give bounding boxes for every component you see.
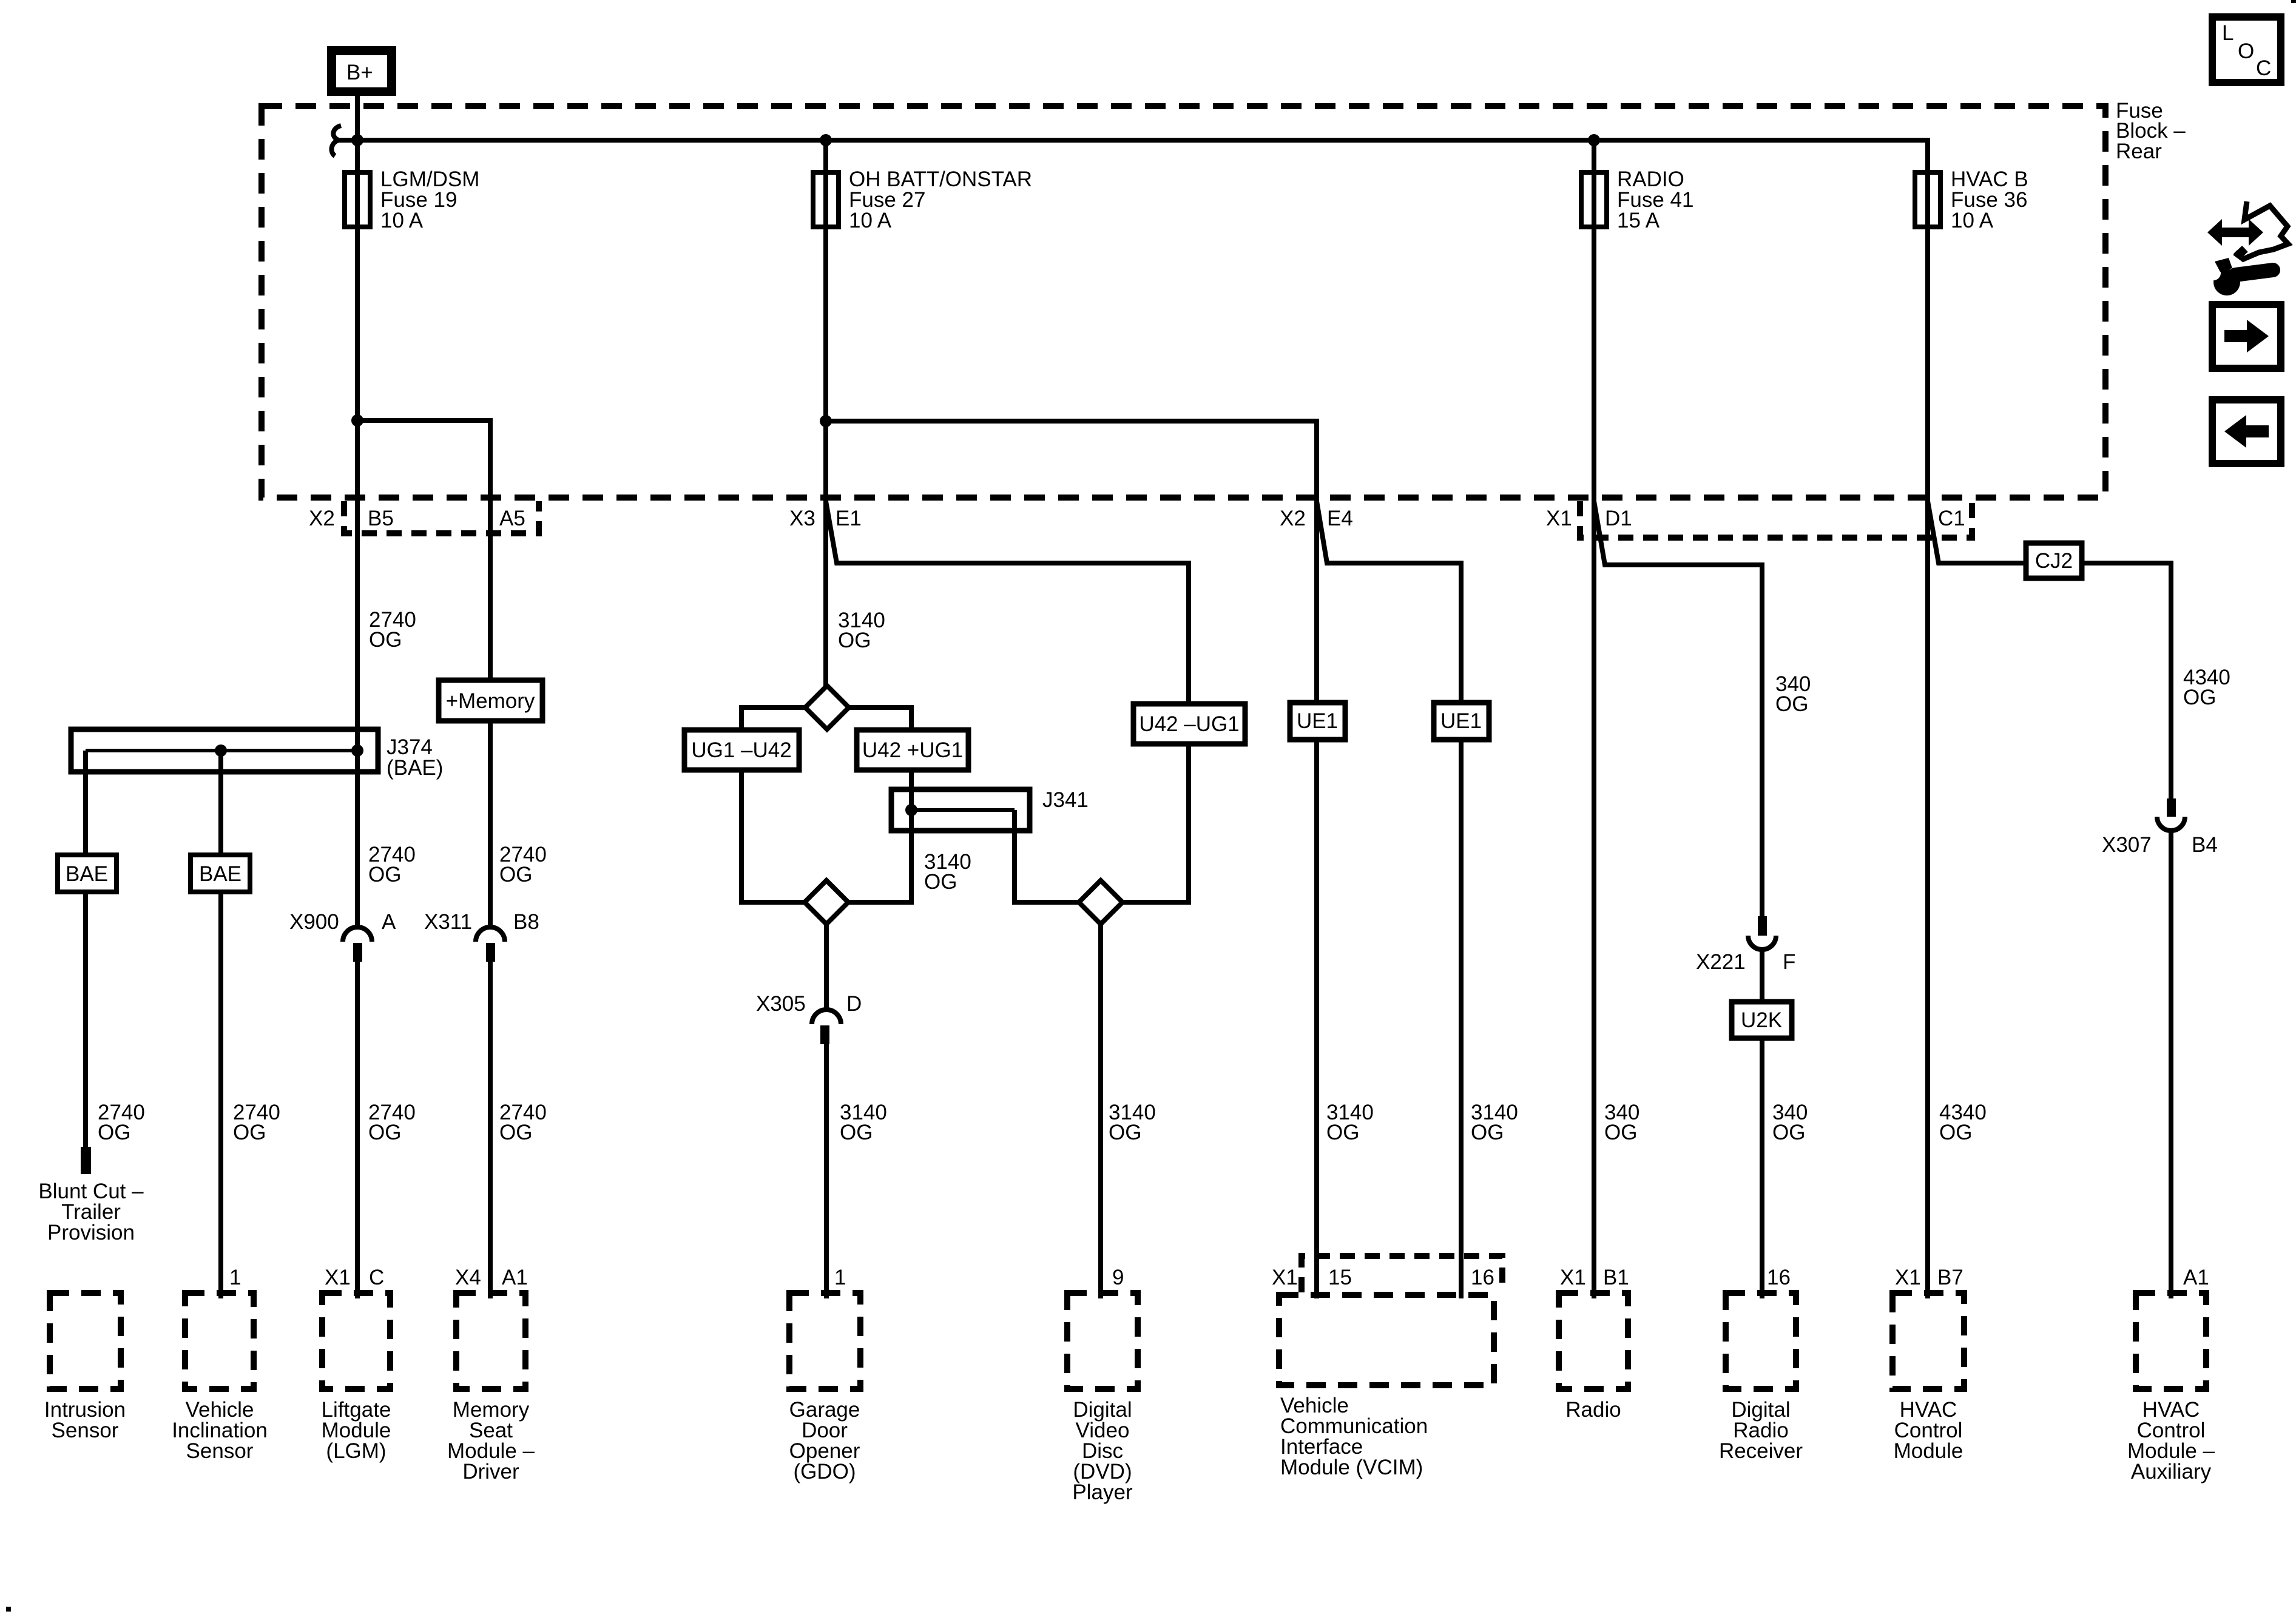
fuse F36 HVAC B — [1915, 167, 2028, 232]
wire label 4340 OG upper — [2183, 666, 2230, 709]
svg-text:U42 –UG1: U42 –UG1 — [1139, 712, 1239, 736]
svg-text:B4: B4 — [2192, 833, 2218, 857]
wire fuse36 output — [1925, 227, 1930, 1298]
svg-text:L: L — [2222, 21, 2234, 45]
wire main battery bus — [338, 140, 1928, 174]
svg-text:10 A: 10 A — [1951, 209, 1994, 232]
wire label 3140 OG low DVD — [1109, 1101, 1156, 1144]
label HVAC Control Module Auxiliary — [2127, 1398, 2215, 1484]
svg-text:16: 16 — [1471, 1266, 1494, 1289]
svg-text:X1: X1 — [1560, 1266, 1586, 1289]
svg-text:OG: OG — [2183, 686, 2216, 709]
wire label 3140 OG low VCIM16 — [1471, 1101, 1518, 1144]
component box Intrusion Sensor — [50, 1293, 121, 1389]
box BAE left — [58, 855, 116, 892]
svg-text:OG: OG — [499, 863, 532, 886]
svg-text:X4: X4 — [455, 1266, 481, 1289]
wire label 340 OG low DRR — [1772, 1101, 1808, 1144]
wire DVD drop — [1098, 924, 1103, 1298]
wire label 3140 OG low GDO — [840, 1101, 887, 1144]
label Liftgate Module (LGM) — [322, 1398, 391, 1463]
node bus junction 3 — [1588, 134, 1600, 146]
wire label 2740 OG mid-left — [368, 843, 416, 886]
component box Liftgate Module — [322, 1293, 390, 1389]
svg-text:UE1: UE1 — [1440, 709, 1482, 733]
svg-text:C: C — [2256, 56, 2271, 80]
svg-text:15 A: 15 A — [1617, 209, 1660, 232]
svg-text:X221: X221 — [1696, 950, 1746, 974]
svg-text:A1: A1 — [2183, 1266, 2209, 1289]
svg-text:X2: X2 — [1280, 507, 1306, 530]
label Digital Video Disc (DVD) Player — [1072, 1398, 1133, 1504]
svg-text:X307: X307 — [2102, 833, 2152, 857]
wire C1 split diagonal to CJ2 — [1928, 501, 2171, 798]
svg-text:Module: Module — [1894, 1439, 1963, 1463]
blunt cut terminal — [81, 1147, 91, 1174]
wire label 2740 OG mid-right — [499, 843, 547, 886]
wire fuse27 drop — [823, 140, 828, 172]
svg-text:Radio: Radio — [1565, 1398, 1621, 1422]
svg-text:C: C — [369, 1266, 384, 1289]
wire B+ feed drop — [355, 96, 360, 140]
svg-text:X1: X1 — [325, 1266, 351, 1289]
fuse F27 OH BATT/ONSTAR — [813, 167, 1032, 232]
wire diamond right branch — [848, 707, 911, 902]
wire fuse19 drop — [355, 140, 360, 172]
connector X221 F — [1696, 916, 1795, 974]
svg-text:OG: OG — [368, 863, 401, 886]
svg-text:D: D — [846, 992, 862, 1016]
svg-text:B7: B7 — [1937, 1266, 1963, 1289]
svg-text:X1: X1 — [1272, 1266, 1298, 1289]
svg-text:B8: B8 — [513, 910, 539, 934]
svg-text:X900: X900 — [289, 910, 339, 934]
wire E1 split diagonal to U42-UG1 — [826, 501, 1189, 902]
svg-text:UG1 –U42: UG1 –U42 — [691, 738, 791, 762]
component box HVAC Control Module — [1893, 1293, 1964, 1389]
connector X900 A — [289, 910, 396, 962]
connector strip X1 D1 C1 — [1580, 501, 1972, 538]
svg-text:16: 16 — [1767, 1266, 1791, 1289]
wire memory seat module drop — [488, 962, 493, 1298]
Fuse Block - Rear dashed boundary — [262, 106, 2105, 498]
icon arrow right box — [2212, 305, 2281, 368]
svg-text:X3: X3 — [789, 507, 815, 530]
svg-text:OG: OG — [1939, 1121, 1972, 1144]
box U42 -UG1 — [1133, 704, 1245, 744]
fuse F41 RADIO — [1581, 167, 1693, 232]
svg-text:D1: D1 — [1605, 507, 1632, 530]
svg-text:BAE: BAE — [199, 862, 241, 886]
svg-text:A: A — [382, 910, 396, 934]
svg-text:U42 +UG1: U42 +UG1 — [862, 738, 963, 762]
box UG1 -U42 — [684, 730, 799, 770]
component box HVAC Control Module Auxiliary — [2136, 1293, 2206, 1389]
svg-text:A1: A1 — [502, 1266, 528, 1289]
component box Vehicle Inclination Sensor — [185, 1293, 254, 1389]
svg-text:Rear: Rear — [2116, 140, 2162, 163]
wire label 2740 OG low4 — [499, 1101, 547, 1144]
component box GDO — [789, 1293, 860, 1389]
wire label 3140 OG upper — [838, 609, 885, 652]
wire blunt cut drop — [83, 892, 88, 1147]
label Intrusion Sensor — [44, 1398, 126, 1442]
wire VCIM feed branch — [826, 421, 1317, 703]
svg-text:OG: OG — [1326, 1121, 1359, 1144]
svg-text:Player: Player — [1072, 1480, 1133, 1504]
svg-text:O: O — [2238, 39, 2254, 63]
splice diamond S2 — [805, 880, 848, 924]
svg-text:OG: OG — [838, 629, 871, 652]
svg-text:15: 15 — [1328, 1266, 1352, 1289]
svg-text:10 A: 10 A — [380, 209, 424, 232]
label HVAC Control Module — [1894, 1398, 1963, 1463]
icon arrow left box — [2212, 400, 2281, 464]
svg-text:J341: J341 — [1042, 788, 1089, 812]
svg-text:Module (VCIM): Module (VCIM) — [1280, 1456, 1423, 1479]
wire liftgate module drop — [355, 962, 360, 1298]
box BAE right — [191, 855, 250, 892]
svg-text:OG: OG — [840, 1121, 873, 1144]
stray period mark — [6, 1607, 11, 1612]
svg-text:F: F — [1783, 950, 1795, 974]
svg-text:U2K: U2K — [1741, 1008, 1782, 1032]
svg-text:OG: OG — [1772, 1121, 1805, 1144]
node onstar branch junction — [820, 415, 832, 427]
splice box J341 — [891, 788, 1089, 902]
wire label 3140 OG at J341 — [924, 850, 971, 894]
wire label 4340 OG low HVAC — [1939, 1101, 1987, 1144]
svg-text:1: 1 — [229, 1266, 241, 1289]
B+ power symbol — [327, 46, 396, 96]
connector strip X2 B5 A5 — [344, 501, 539, 533]
svg-text:Provision: Provision — [47, 1221, 135, 1244]
svg-text:10 A: 10 A — [849, 209, 892, 232]
box UE1 right — [1434, 703, 1489, 740]
box U2K — [1732, 1002, 1792, 1038]
node bus junction 1 — [351, 134, 363, 146]
stray corner mark — [2291, 0, 2296, 3]
wire BAE right drop — [218, 751, 223, 855]
connector X307 B4 — [2102, 798, 2218, 857]
box U42 +UG1 — [857, 730, 968, 770]
svg-text:X1: X1 — [1546, 507, 1572, 530]
svg-text:(LGM): (LGM) — [326, 1439, 386, 1463]
wire inclination sensor drop — [218, 892, 223, 1298]
wire D1 split diagonal to digital radio receiver — [1594, 501, 1762, 916]
wire label 2740 OG upper — [369, 608, 416, 652]
svg-text:CJ2: CJ2 — [2035, 549, 2073, 573]
label Vehicle Inclination Sensor — [172, 1398, 268, 1463]
label VCIM — [1280, 1394, 1428, 1479]
connector X311 B8 — [424, 910, 539, 962]
svg-text:E1: E1 — [836, 507, 862, 530]
svg-text:OG: OG — [1471, 1121, 1504, 1144]
svg-text:B+: B+ — [346, 61, 373, 84]
svg-text:OG: OG — [369, 628, 402, 652]
splice diamond S1 — [805, 686, 849, 729]
wire fuse27 output — [823, 227, 828, 686]
svg-text:Driver: Driver — [462, 1460, 519, 1484]
LOC reference box — [2212, 17, 2281, 83]
splice box J374 (BAE) — [71, 729, 443, 780]
wire VCIM 16 drop — [1459, 740, 1464, 1298]
svg-text:OG: OG — [499, 1121, 532, 1144]
splice diamond S3 — [1079, 880, 1123, 924]
component box DVD — [1067, 1293, 1138, 1389]
svg-text:(BAE): (BAE) — [387, 756, 443, 780]
svg-text:OG: OG — [1775, 692, 1808, 716]
wire X221 to U2K — [1760, 950, 1764, 1002]
svg-text:1: 1 — [834, 1266, 846, 1289]
wire fuse19 output — [355, 227, 360, 928]
label Digital Radio Receiver — [1719, 1398, 1803, 1463]
node bus junction 2 — [820, 134, 832, 146]
svg-text:A5: A5 — [499, 507, 525, 530]
wire memory seat branch — [357, 420, 490, 928]
wire X307 to HVAC aux — [2169, 831, 2173, 1298]
svg-text:OG: OG — [924, 870, 957, 894]
Fuse Block - Rear label — [2116, 99, 2186, 163]
svg-text:Sensor: Sensor — [52, 1419, 119, 1442]
wire label 340 OG upper — [1775, 672, 1811, 716]
wire GDO drop upper — [824, 924, 829, 1011]
VCIM connector strip — [1302, 1256, 1502, 1292]
component box VCIM — [1279, 1295, 1494, 1385]
svg-text:UE1: UE1 — [1297, 709, 1338, 733]
label Blunt Cut Trailer Provision — [38, 1180, 144, 1244]
svg-text:X2: X2 — [309, 507, 335, 530]
svg-text:Sensor: Sensor — [186, 1439, 254, 1463]
svg-text:OG: OG — [368, 1121, 401, 1144]
svg-text:OG: OG — [1604, 1121, 1637, 1144]
svg-text:X305: X305 — [756, 992, 806, 1016]
wire label 2740 OG low1 — [98, 1101, 145, 1144]
wire GDO drop lower — [824, 1044, 829, 1298]
wire diamond left branch — [741, 707, 805, 902]
fuse F19 LGM/DSM — [345, 167, 479, 232]
wire label 2740 OG low3 — [368, 1101, 416, 1144]
node LGM branch junction — [351, 414, 363, 427]
svg-text:B1: B1 — [1603, 1266, 1629, 1289]
svg-text:9: 9 — [1112, 1266, 1124, 1289]
svg-text:Receiver: Receiver — [1719, 1439, 1803, 1463]
svg-text:X1: X1 — [1895, 1266, 1921, 1289]
wire E4 split diagonal to UE1 right — [1317, 501, 1461, 703]
box CJ2 — [2026, 543, 2082, 578]
wire VCIM 15 drop — [1314, 740, 1319, 1298]
wire label 2740 OG low2 — [233, 1101, 280, 1144]
wire BAE left drop — [83, 751, 88, 855]
svg-text:Auxiliary: Auxiliary — [2131, 1460, 2212, 1484]
label Garage Door Opener (GDO) — [789, 1398, 860, 1484]
connector X305 D — [756, 992, 862, 1044]
wire fuse41 drop — [1592, 140, 1596, 172]
svg-text:OG: OG — [1109, 1121, 1141, 1144]
icon double arrow with wrench — [2206, 201, 2288, 295]
wire U2K to digital radio receiver — [1760, 1038, 1764, 1298]
svg-text:X311: X311 — [424, 910, 472, 934]
wire fuse41 output — [1592, 227, 1596, 1298]
svg-text:OG: OG — [98, 1121, 130, 1144]
svg-text:+Memory: +Memory — [446, 689, 535, 713]
component box Digital Radio Receiver — [1726, 1293, 1796, 1389]
wire label 340 OG low radio — [1604, 1101, 1639, 1144]
wire label 3140 OG low VCIM15 — [1326, 1101, 1374, 1144]
svg-text:(GDO): (GDO) — [793, 1460, 856, 1484]
svg-text:E4: E4 — [1327, 507, 1353, 530]
svg-text:B5: B5 — [368, 507, 394, 530]
svg-text:C1: C1 — [1938, 507, 1965, 530]
label Memory Seat Module Driver — [447, 1398, 535, 1484]
component box Memory Seat Module — [456, 1293, 525, 1389]
component box Radio — [1559, 1293, 1628, 1389]
box UE1 left — [1290, 703, 1345, 740]
svg-text:OG: OG — [233, 1121, 266, 1144]
hook continuation symbol — [331, 126, 341, 156]
box +Memory — [439, 680, 542, 721]
svg-text:BAE: BAE — [66, 862, 108, 886]
